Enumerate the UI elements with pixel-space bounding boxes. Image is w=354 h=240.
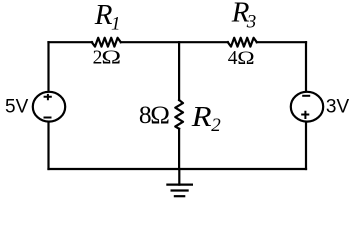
svg-text:Ω: Ω [101, 47, 121, 69]
svg-text:Ω: Ω [150, 101, 170, 129]
ground bar 1 [166, 184, 193, 186]
svg-text:4: 4 [228, 48, 238, 69]
svg-text:3: 3 [246, 12, 256, 33]
resistor R1 zigzag [92, 38, 121, 47]
svg-text:5V: 5V [5, 97, 29, 118]
wire top-left segment [49, 41, 93, 43]
V1 plus sign [44, 94, 52, 100]
ground bar 2 [171, 189, 189, 191]
wire middle upper [178, 42, 180, 100]
wire top-right segment [257, 41, 306, 43]
ground bar 3 [174, 195, 186, 197]
svg-text:Ω: Ω [237, 47, 254, 69]
V2 minus sign [302, 95, 310, 97]
voltage source V2 circle (3V) [291, 92, 323, 122]
wire top-middle segment [121, 41, 228, 43]
svg-text:3V: 3V [326, 97, 350, 118]
V2 plus sign [301, 111, 309, 119]
wire left lower [47, 122, 49, 169]
resistor R2 zigzag [175, 100, 183, 129]
wire right lower [305, 122, 307, 169]
wire middle lower [178, 129, 180, 169]
ground stem [178, 169, 180, 185]
svg-text:R: R [94, 0, 113, 31]
svg-text:R: R [191, 100, 212, 132]
svg-text:2: 2 [211, 115, 221, 136]
voltage source V1 circle (5V) [33, 92, 65, 122]
wire bottom [49, 168, 307, 170]
svg-text:1: 1 [111, 14, 121, 35]
wire left upper [47, 42, 49, 91]
resistor R3 zigzag [228, 38, 257, 47]
wire right upper [305, 42, 307, 91]
V1 minus sign [44, 117, 52, 119]
